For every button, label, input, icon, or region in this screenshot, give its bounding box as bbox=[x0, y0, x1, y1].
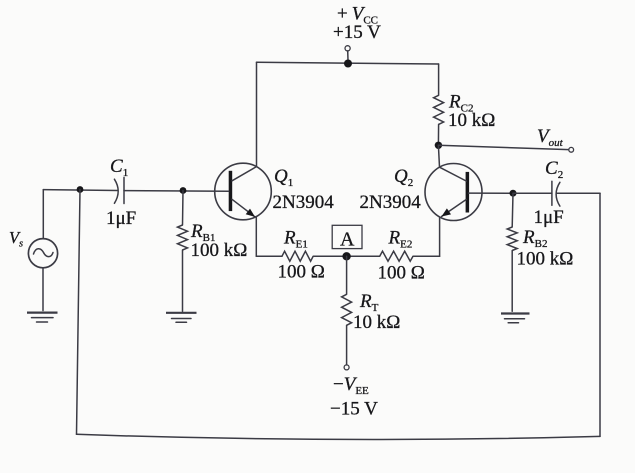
wire: input node down to Vs bbox=[42, 190, 44, 239]
resistor RB1 bbox=[178, 225, 188, 250]
terminal -VEE bbox=[344, 365, 349, 370]
resistor RE1 bbox=[282, 251, 313, 261]
svg-text:A: A bbox=[340, 229, 355, 251]
wire: node to Q2 collector bbox=[438, 145, 439, 167]
wire: Q1 collector to rail bbox=[256, 62, 258, 166]
svg-text:+15 V: +15 V bbox=[333, 22, 381, 43]
wire: RC2 to collector node bbox=[437, 124, 439, 145]
wire: node B2 to C2 bbox=[513, 192, 552, 194]
wire: Q2 base to node B2 bbox=[469, 192, 514, 194]
wire: rail to RC2 bbox=[438, 64, 440, 95]
capacitor C1 bbox=[114, 177, 124, 203]
wire: emitter to RE1 bbox=[256, 255, 282, 257]
terminal Vout bbox=[569, 147, 574, 152]
wire: RB2 to ground bbox=[511, 251, 513, 312]
ground (RB2) bbox=[501, 314, 530, 323]
svg-text:1μF: 1μF bbox=[534, 207, 564, 228]
svg-text:Q2: Q2 bbox=[394, 166, 413, 189]
junction dot collector node bbox=[435, 142, 442, 149]
terminal +VCC bbox=[345, 46, 350, 60]
transistor Q1 bbox=[215, 163, 272, 220]
ground (RB1) bbox=[166, 313, 197, 323]
svg-text:100 kΩ: 100 kΩ bbox=[191, 240, 248, 261]
capacitor C2 bbox=[552, 181, 560, 206]
svg-text:RB2: RB2 bbox=[522, 227, 547, 250]
source Vs bbox=[28, 239, 57, 268]
svg-text:−VEE: −VEE bbox=[333, 374, 369, 397]
wire: RB1 to ground bbox=[182, 250, 184, 311]
wire: C1 to Q1 base bbox=[124, 190, 229, 193]
svg-text:2N3904: 2N3904 bbox=[360, 192, 422, 213]
wire: base node to RB1 bbox=[182, 191, 185, 226]
resistor RB2 bbox=[507, 227, 517, 251]
svg-text:100 Ω: 100 Ω bbox=[378, 263, 425, 284]
svg-text:RE1: RE1 bbox=[283, 228, 308, 251]
junction dot input node bbox=[77, 186, 84, 193]
wire: node B2 to RB2 bbox=[511, 193, 514, 227]
svg-text:C2: C2 bbox=[545, 158, 563, 181]
wire: +VCC top rail bbox=[257, 62, 439, 64]
svg-text:100 kΩ: 100 kΩ bbox=[517, 249, 574, 270]
resistor RT bbox=[342, 294, 352, 325]
wire: RE1 to node A bbox=[313, 255, 380, 257]
junction dot base node B2 bbox=[510, 190, 517, 197]
svg-text:RT: RT bbox=[359, 291, 379, 314]
svg-text:10 kΩ: 10 kΩ bbox=[448, 110, 495, 131]
svg-text:Vs: Vs bbox=[9, 228, 23, 250]
svg-text:Vout: Vout bbox=[537, 126, 564, 149]
svg-text:RE2: RE2 bbox=[388, 228, 413, 251]
resistor RC2 bbox=[434, 95, 444, 124]
wire: RE2 to Q2 emitter bbox=[413, 255, 440, 257]
svg-text:10 kΩ: 10 kΩ bbox=[353, 312, 400, 333]
svg-text:1μF: 1μF bbox=[106, 208, 136, 229]
wire: bottom rail of loop bbox=[77, 434, 601, 439]
svg-text:2N3904: 2N3904 bbox=[273, 192, 335, 213]
junction dot base node B1 bbox=[180, 187, 187, 194]
wire: Vs to ground bbox=[42, 268, 44, 311]
node A box bbox=[332, 225, 362, 250]
resistor RE2 bbox=[380, 251, 413, 261]
wire: Q2 emitter down bbox=[439, 218, 441, 257]
wire: input node down (left leg of loop) bbox=[77, 190, 81, 435]
wire: Vs to C1 bbox=[43, 189, 118, 192]
wire: Vout lead bbox=[438, 145, 568, 149]
svg-text:100 Ω: 100 Ω bbox=[278, 262, 325, 283]
wire: RT to -VEE terminal bbox=[346, 325, 348, 365]
wire: Q1 emitter down bbox=[255, 217, 257, 256]
ground (Vs) bbox=[27, 313, 58, 322]
wire: C2 to right rail bbox=[556, 192, 600, 194]
svg-text:C1: C1 bbox=[110, 156, 128, 179]
wire: right leg of loop bbox=[599, 193, 601, 436]
svg-text:−15 V: −15 V bbox=[330, 399, 378, 420]
junction dot on VCC rail bbox=[344, 60, 352, 68]
svg-text:Q1: Q1 bbox=[274, 166, 293, 189]
junction dot node A bbox=[342, 252, 350, 260]
wire: node A to RT bbox=[346, 256, 348, 294]
transistor Q2 bbox=[425, 164, 482, 221]
